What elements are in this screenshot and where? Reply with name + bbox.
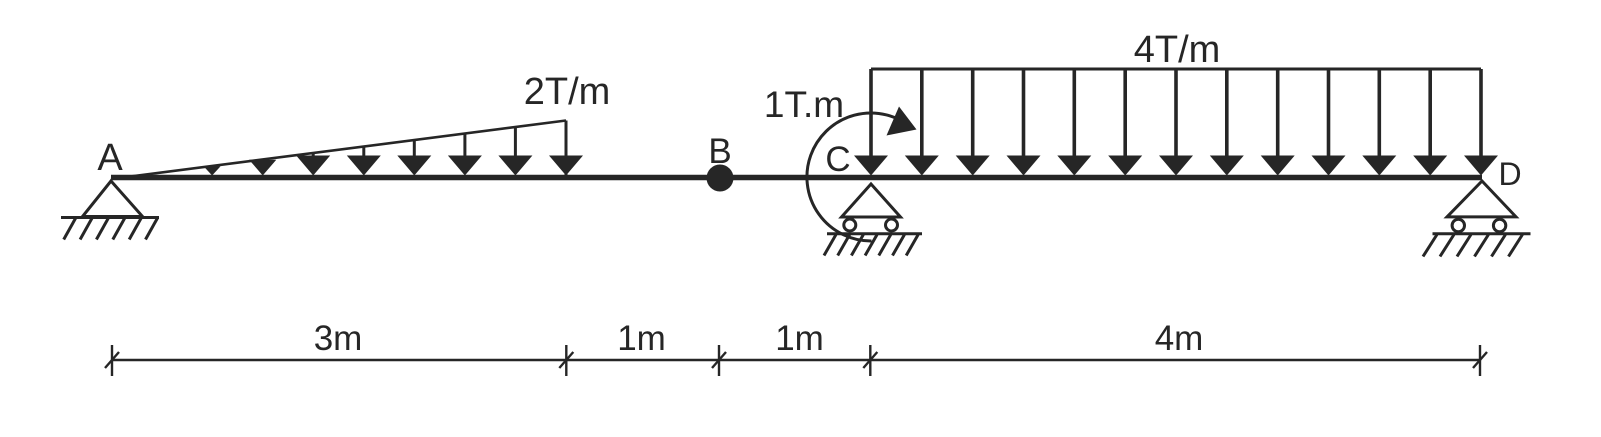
UDL arrow 6: [1108, 69, 1142, 176]
svg-text:1m: 1m: [775, 319, 824, 358]
UDL arrow 2: [905, 69, 939, 176]
dimension tick at C: [863, 345, 877, 376]
svg-text:C: C: [825, 140, 850, 179]
dimension tick at A: [105, 345, 119, 376]
UDL arrow 5: [1057, 69, 1091, 176]
moment arrowhead: [887, 107, 917, 136]
triangular load arrow 7: [498, 127, 532, 176]
dimension line: [112, 359, 1480, 361]
UDL arrow 7: [1159, 69, 1193, 176]
UDL arrow 10: [1312, 69, 1346, 176]
svg-text:A: A: [97, 137, 123, 179]
svg-text:3m: 3m: [314, 319, 363, 358]
support C (roller): [824, 184, 922, 256]
moment arc 1T.m at C: [807, 113, 912, 241]
hinge B: [707, 165, 734, 192]
svg-text:4m: 4m: [1155, 319, 1204, 358]
triangular load arrow 1: [204, 166, 221, 175]
svg-text:B: B: [708, 132, 731, 171]
support D (roller): [1423, 181, 1531, 257]
UDL arrow 4: [1007, 69, 1041, 176]
triangular load arrow 4: [347, 147, 381, 176]
triangular load arrow 5: [397, 140, 431, 176]
svg-text:D: D: [1498, 156, 1521, 192]
UDL arrow 12: [1413, 69, 1447, 176]
UDL arrow 1: [854, 69, 888, 176]
triangular load arrow 2: [249, 160, 276, 176]
UDL top line: [871, 68, 1481, 71]
UDL arrow 9: [1261, 69, 1295, 176]
svg-text:1m: 1m: [617, 319, 666, 358]
support A (pin): [61, 181, 159, 240]
triangular load arrow 3: [296, 153, 330, 176]
svg-text:1T.m: 1T.m: [764, 84, 844, 125]
svg-text:4T/m: 4T/m: [1134, 29, 1221, 71]
UDL arrow 13: [1464, 69, 1498, 176]
beam A-D: [111, 175, 1482, 181]
triangular load slope line: [111, 121, 566, 180]
triangular load arrow 6: [448, 134, 482, 176]
UDL arrow 8: [1210, 69, 1244, 176]
dimension tick at D: [1473, 345, 1487, 376]
svg-text:2T/m: 2T/m: [524, 71, 611, 113]
UDL arrow 3: [956, 69, 990, 176]
triangular load right edge: [565, 121, 568, 177]
dimension tick at B: [712, 345, 726, 376]
UDL arrow 11: [1362, 69, 1396, 176]
dimension tick at 3m: [559, 345, 573, 376]
triangular load arrow 8: [549, 156, 583, 176]
